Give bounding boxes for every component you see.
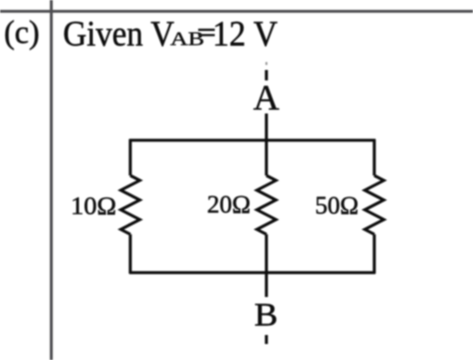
wire: middle branch upper bbox=[265, 140, 268, 175]
svg-text:Given V: Given V bbox=[63, 14, 174, 54]
dashed lead above node A bbox=[265, 62, 267, 65]
value label 10 ohm bbox=[71, 192, 117, 220]
svg-text:(c): (c) bbox=[4, 14, 40, 51]
wire: bottom rail bbox=[129, 271, 375, 274]
value label 50 ohm bbox=[315, 193, 359, 220]
table border: top horizontal rule bbox=[0, 10, 473, 13]
resistor R1 zigzag (10 ohm) bbox=[121, 176, 140, 235]
resistor R3 zigzag (50 ohm) bbox=[365, 176, 384, 235]
svg-text:20Ω: 20Ω bbox=[207, 192, 251, 219]
wire: right branch lower bbox=[373, 234, 376, 273]
svg-text:B: B bbox=[254, 298, 278, 334]
node B label bbox=[254, 298, 278, 334]
wire: node A down to top rail bbox=[265, 114, 268, 141]
resistor R2 zigzag (20 ohm) bbox=[257, 176, 276, 235]
label (c) bbox=[4, 14, 40, 51]
svg-text:10Ω: 10Ω bbox=[71, 192, 117, 220]
table border: vertical column rule bbox=[50, 0, 53, 360]
svg-text:A: A bbox=[253, 78, 279, 118]
wire: top rail bbox=[129, 139, 375, 142]
svg-text:12 V: 12 V bbox=[212, 14, 277, 53]
value label 20 ohm bbox=[207, 192, 251, 219]
wire: left branch lower bbox=[129, 234, 132, 273]
svg-text:50Ω: 50Ω bbox=[315, 193, 359, 220]
dashed lead below node B bbox=[265, 335, 268, 344]
svg-text:AB: AB bbox=[170, 28, 204, 50]
wire: right branch upper bbox=[373, 139, 376, 175]
caption: Given VAB=12 V bbox=[63, 14, 278, 54]
node A label bbox=[253, 78, 279, 118]
wire: middle branch lower down to node B bbox=[265, 234, 268, 297]
wire: left branch upper bbox=[129, 139, 132, 175]
